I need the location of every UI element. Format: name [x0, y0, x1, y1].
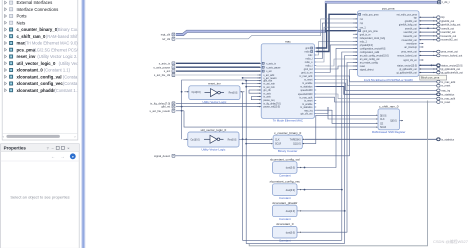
svg-text:Res[0:0]: Res[0:0] — [228, 140, 237, 142]
wire tx_ifg_delay — [176, 102, 260, 104]
wire reset fanout vertical B — [246, 80, 345, 243]
netlist panel background — [2, 0, 78, 140]
svg-text:resetdone: resetdone — [406, 43, 417, 46]
wires trunk mac to pcs_pma — [316, 41, 356, 55]
svg-text:gtrefclk_out: gtrefclk_out — [441, 20, 454, 23]
svg-text:Constant: Constant — [279, 217, 291, 221]
wire xlconstant_config_val net — [302, 48, 356, 167]
svg-text:status_vector[15:0]: status_vector[15:0] — [397, 64, 417, 67]
svg-text:tx_reset: tx_reset — [441, 101, 450, 104]
wire signal_detect to pcs_pma — [175, 70, 355, 156]
svg-text:rx_enable: rx_enable — [302, 82, 313, 85]
svg-text:gt_qplloutrefclk_out: gt_qplloutrefclk_out — [397, 72, 418, 75]
module c_shift_ram_0 (RAM-based Shift Register) — [378, 109, 400, 130]
svg-text:status_vector[15:0]: status_vector[15:0] — [441, 64, 462, 67]
svg-text:rx_axis: rx_axis — [263, 92, 271, 95]
svg-text:gmii_pcs_pma: gmii_pcs_pma — [363, 31, 379, 33]
svg-text:xlconstant_phaddr: xlconstant_phaddr — [17, 88, 56, 93]
svg-text:Constant: Constant — [279, 196, 291, 200]
svg-text:signal_detect: signal_detect — [360, 69, 374, 72]
svg-text:rx_axi_rstn: rx_axi_rstn — [263, 83, 275, 86]
svg-text:xlconstant_0: xlconstant_0 — [17, 68, 44, 73]
wire reset_inv fanout vertical A — [243, 92, 342, 241]
svg-text:rx_mac_aclk: rx_mac_aclk — [441, 81, 456, 84]
svg-text:gmii: gmii — [305, 48, 310, 50]
wire util_vector Res to counter CLK — [243, 138, 272, 140]
svg-text:pcs_pma: pcs_pma — [382, 7, 395, 11]
svg-text:rx_statistics: rx_statistics — [441, 93, 455, 96]
svg-text:THRESH0: THRESH0 — [290, 139, 302, 141]
wire trunk down to shift ram rows — [316, 107, 328, 114]
svg-text:gt_qplloutrefclk_out: gt_qplloutrefclk_out — [441, 71, 463, 74]
wire s_axi bus — [176, 70, 260, 72]
svg-text:s_axis_pause: s_axis_pause — [153, 65, 170, 69]
module xlconstant_config_val (Constant) — [273, 162, 298, 174]
svg-text:→: → — [60, 154, 64, 159]
svg-text:mdio_t: mdio_t — [305, 65, 312, 68]
svg-text:1G/2.5G Ethernet PCS/PMA or SG: 1G/2.5G Ethernet PCS/PMA or SGMII — [364, 78, 413, 82]
svg-text:sgmii_clk_en: sgmii_clk_en — [403, 60, 417, 62]
svg-text:reset_inv: reset_inv — [17, 54, 36, 59]
svg-text:D[0:0]: D[0:0] — [380, 115, 387, 117]
svg-text:userclk_out: userclk_out — [441, 27, 454, 30]
svg-text:ext_mdio_pcs_pma: ext_mdio_pcs_pma — [397, 13, 418, 16]
svg-text:CLK: CLK — [275, 139, 280, 141]
svg-text:tx_mac_aclk: tx_mac_aclk — [299, 96, 313, 99]
svg-text:speedis10100: speedis10100 — [298, 94, 313, 96]
svg-text:glbl_rstn: glbl_rstn — [263, 80, 273, 83]
panel splitter — [81, 0, 85, 248]
svg-text:gtrefclk_bufg_out: gtrefclk_bufg_out — [441, 24, 460, 27]
svg-text:xlconstant_config_vec: xlconstant_config_vec — [270, 180, 301, 184]
svg-text:Ports: Ports — [17, 14, 27, 19]
svg-text:s_axi_resetn: s_axi_resetn — [263, 77, 277, 80]
svg-text:rxuserclk2_out: rxuserclk2_out — [402, 39, 417, 42]
svg-text:mmcm_locked_out: mmcm_locked_out — [397, 55, 417, 58]
svg-text:SCLR: SCLR — [275, 144, 282, 146]
module xlconstant_0 (Constant) — [273, 226, 298, 238]
svg-text:Binary Counter: Binary Counter — [278, 149, 297, 153]
svg-text:Tri Mode Ethernet MAC: Tri Mode Ethernet MAC — [273, 119, 303, 123]
wire to counter SCLR — [246, 143, 271, 145]
wire rx_statistics to port — [316, 87, 436, 95]
svg-text:Utility Vector Logic: Utility Vector Logic — [202, 147, 226, 151]
module xlconstant_phaddr (Constant) — [273, 205, 298, 217]
svg-text:rxuserclk_out: rxuserclk_out — [403, 35, 417, 38]
svg-text:gtx_clk: gtx_clk — [263, 89, 271, 92]
wire s_axi_lite_resetn — [176, 110, 184, 112]
wire xlconstant_phaddr net — [302, 210, 345, 212]
svg-text:configuration_vector[4:0]: configuration_vector[4:0] — [360, 48, 386, 51]
wire counter THRESH0 to tx_statistics port (long) — [305, 138, 437, 140]
svg-text:an_interrupt: an_interrupt — [404, 46, 417, 49]
svg-text:CLK: CLK — [380, 119, 385, 121]
svg-text:phyaddr[4:0]: phyaddr[4:0] — [360, 44, 373, 47]
wire s_axi_lite_clk — [176, 74, 260, 76]
svg-text:rx_reset: rx_reset — [304, 79, 313, 82]
svg-text:pma_reset_out: pma_reset_out — [441, 51, 458, 54]
svg-text:rx_statistics: rx_statistics — [300, 86, 313, 89]
module reset_inv (Utility Vector Logic) — [189, 86, 240, 100]
svg-text:rxuserclk_out: rxuserclk_out — [441, 35, 456, 38]
output port t_clk_t — [438, 1, 441, 4]
svg-text:xlconstant_0: xlconstant_0 — [276, 222, 294, 226]
wire counter Q to shift ram D — [305, 115, 377, 143]
module mac (Tri Mode Ethernet MAC) — [261, 44, 314, 119]
svg-text:reset_inv: reset_inv — [208, 82, 221, 86]
wire s_axis_pause bus — [176, 66, 260, 68]
wire mdio interface (thick) — [316, 14, 356, 51]
svg-text:Q[11:0]: Q[11:0] — [293, 144, 301, 146]
wire mgt_clk vertical (navy) — [325, 2, 327, 32]
netlist tree rows — [5, 0, 97, 93]
svg-text:CE: CE — [380, 123, 384, 125]
wires pcs_pma outputs to ports — [419, 16, 437, 18]
module c_counter_binary_0 (Binary Counter) — [273, 135, 302, 149]
wire tx_reset to port — [316, 97, 436, 102]
svg-text:Select an object to see proper: Select an object to see properties — [10, 195, 69, 200]
svg-text:mgt_clk: mgt_clk — [161, 33, 171, 37]
svg-text:gmii_txd: gmii_txd — [304, 68, 313, 71]
svg-text:s_axi_lite_resetn: s_axi_lite_resetn — [150, 109, 171, 113]
svg-text:Interface Connections: Interface Connections — [17, 7, 59, 12]
svg-text:mdio_pcs_pma: mdio_pcs_pma — [363, 14, 379, 16]
svg-text:reset: reset — [360, 65, 366, 68]
svg-text:CSDN @编程W527: CSDN @编程W527 — [433, 238, 469, 244]
svg-text:s_axis_pause: s_axis_pause — [266, 67, 281, 69]
svg-text:(Tri Mode Ethernet MAC 9.0): (Tri Mode Ethernet MAC 9.0) — [25, 41, 79, 46]
tooltip Block pcs_pma — [420, 75, 447, 80]
svg-text:Properties: Properties — [4, 146, 27, 151]
svg-text:rx_reset: rx_reset — [441, 85, 450, 88]
wire glbl_rst — [176, 106, 260, 108]
output ports right column — [437, 16, 440, 19]
svg-text:dout[0:0]: dout[0:0] — [286, 231, 295, 234]
svg-text:gmii_tx_er: gmii_tx_er — [360, 33, 371, 36]
svg-text:userclk_out: userclk_out — [405, 27, 417, 30]
wire rx_reset to port — [316, 80, 436, 86]
netlist horizontal scrollbar — [2, 132, 78, 134]
svg-text:tx_reset: tx_reset — [304, 100, 313, 103]
svg-text:signal_detect: signal_detect — [154, 154, 170, 158]
svg-text:mdio: mdio — [305, 52, 311, 54]
svg-text:s_axis_tx: s_axis_tx — [159, 61, 171, 65]
wire gmii interface (thick) — [316, 31, 356, 48]
svg-text:SCLR: SCLR — [380, 127, 387, 129]
svg-text:tx_statistics: tx_statistics — [300, 106, 313, 109]
svg-text:util_vector_logic_0: util_vector_logic_0 — [17, 61, 57, 66]
wire rx_mac_aclk to port — [316, 76, 436, 82]
svg-text:ref_clk: ref_clk — [162, 37, 171, 41]
wire mgt_clk top run to port t_clk_t (lavender) — [325, 1, 438, 4]
module xlconstant_config_vec (Constant) — [273, 184, 298, 196]
svg-text:dout[0:0]: dout[0:0] — [286, 167, 295, 170]
svg-text:mac_irq: mac_irq — [304, 109, 313, 112]
wire highlighted net (gray) — [249, 101, 427, 246]
svg-text:pma_reset_out: pma_reset_out — [401, 51, 417, 54]
svg-text:pause_val[15:0]: pause_val[15:0] — [263, 107, 280, 109]
svg-text:xlconstant_config_vec: xlconstant_config_vec — [17, 81, 64, 86]
svg-text:s_axi: s_axi — [164, 69, 171, 73]
svg-text:configuration_valid: configuration_valid — [360, 51, 380, 54]
svg-text:an_adv_config_vector[15:0]: an_adv_config_vector[15:0] — [360, 55, 389, 58]
wire trunk to shift ram CE — [332, 110, 376, 123]
wire s_axi_lite_resetn to shift ram SCLR — [184, 111, 376, 127]
svg-text:tx_axi_rstn: tx_axi_rstn — [263, 86, 275, 89]
svg-text:rxuserclk2_out: rxuserclk2_out — [441, 39, 458, 42]
svg-text:glbl_rst: glbl_rst — [161, 105, 170, 109]
svg-text:(Utility Vector Logic 2.0): (Utility Vector Logic 2.0) — [37, 54, 81, 59]
svg-text:dout[4:0]: dout[4:0] — [286, 210, 295, 213]
svg-text:gtrefclk_out: gtrefclk_out — [405, 20, 417, 23]
svg-text:?: ? — [47, 147, 49, 151]
svg-text:▾: ▾ — [72, 155, 74, 159]
svg-text:mdio_i: mdio_i — [306, 59, 313, 61]
svg-text:xlconstant_phaddr: xlconstant_phaddr — [272, 201, 297, 205]
svg-text:c_counter_binary_0: c_counter_binary_0 — [274, 131, 301, 135]
svg-text:External Interfaces: External Interfaces — [17, 0, 53, 5]
wire fanout stubs into mac resets — [243, 77, 260, 79]
svg-text:tx_axis: tx_axis — [263, 96, 271, 99]
svg-text:an_adv_config_val: an_adv_config_val — [360, 59, 380, 61]
svg-text:rx_mac_aclk: rx_mac_aclk — [299, 75, 313, 78]
wire ref_clk — [176, 19, 356, 39]
svg-text:an_restart_config: an_restart_config — [360, 62, 379, 65]
svg-text:s_axi_lite_clk: s_axi_lite_clk — [154, 73, 171, 77]
wire trunk to shift ram CLK — [328, 107, 376, 119]
svg-text:gt_qplloutclk_out: gt_qplloutclk_out — [399, 68, 417, 71]
svg-text:userclk2_out: userclk2_out — [404, 31, 418, 34]
svg-text:pause_req: pause_req — [263, 99, 275, 102]
svg-text:Res[0:0]: Res[0:0] — [229, 93, 238, 95]
properties panel — [1, 144, 80, 248]
module pcs_pma (1G/2.5G Ethernet PCS/PMA or SGMII) — [358, 11, 420, 77]
svg-text:mac_irq: mac_irq — [441, 89, 451, 92]
wire xlconstant_config_vec net — [302, 189, 342, 191]
svg-text:c_counter_binary_0: c_counter_binary_0 — [17, 27, 58, 32]
svg-text:rxn_1: rxn_1 — [360, 26, 367, 29]
wire xlconstant_0 net — [302, 63, 356, 233]
svg-text:mdc_1: mdc_1 — [360, 42, 368, 44]
svg-text:speedis100: speedis100 — [300, 90, 313, 92]
wire mac_irq to port — [316, 83, 436, 90]
svg-text:Op1[0:0]: Op1[0:0] — [191, 140, 200, 142]
svg-text:Constant: Constant — [279, 174, 291, 178]
svg-text:gtrefclk_bufg_out: gtrefclk_bufg_out — [399, 24, 417, 27]
wire s_axis_tx bus — [176, 62, 260, 64]
svg-text:Q[0:0]: Q[0:0] — [390, 121, 397, 123]
svg-text:util_vector_logic_0: util_vector_logic_0 — [201, 128, 227, 132]
svg-text:xlconstant_config_val: xlconstant_config_val — [17, 74, 62, 79]
svg-text:gtx_clk_out: gtx_clk_out — [301, 113, 313, 116]
svg-text:gmii_tx_en: gmii_tx_en — [301, 72, 313, 75]
svg-text:tx_enable: tx_enable — [302, 103, 313, 106]
svg-text:Nets: Nets — [17, 20, 26, 25]
svg-text:mmcm_locked_out: mmcm_locked_out — [441, 54, 462, 57]
svg-text:–: – — [52, 147, 54, 151]
svg-text:userclk2_out: userclk2_out — [441, 31, 455, 34]
svg-text:tx_statistics: tx_statistics — [441, 138, 455, 141]
svg-text:tx_ifg_delay[7:0]: tx_ifg_delay[7:0] — [263, 103, 280, 106]
svg-text:mdio_o: mdio_o — [305, 62, 313, 64]
wire mgt_clk bus (lavender) — [176, 31, 327, 34]
wire glbl_rst riser / loop — [182, 80, 247, 139]
svg-text:←: ← — [51, 154, 55, 159]
svg-text:s_axi: s_axi — [266, 71, 272, 73]
svg-text:c_shift_ram_0: c_shift_ram_0 — [379, 105, 399, 109]
svg-text:s_axi_aclk: s_axi_aclk — [263, 75, 275, 77]
svg-text:c_shift_ram_0: c_shift_ram_0 — [17, 34, 47, 39]
svg-text:xlconstant_config_val: xlconstant_config_val — [270, 158, 300, 162]
wire tx_mac_aclk to port — [316, 94, 436, 99]
svg-text:Block pcs_pma: Block pcs_pma — [421, 76, 440, 80]
svg-text:s_axis_tx: s_axis_tx — [266, 62, 277, 65]
module util_vector_logic_0 (Utility Vector Logic) — [188, 132, 239, 147]
svg-text:RAM-based Shift Register: RAM-based Shift Register — [372, 130, 405, 134]
svg-text:Op1[0:0]: Op1[0:0] — [192, 92, 201, 94]
svg-text:(Constant 1.1): (Constant 1.1) — [44, 68, 71, 73]
svg-text:dout[0:0]: dout[0:0] — [286, 189, 295, 192]
svg-text:mac: mac — [285, 40, 291, 44]
svg-text:independent_clock_bufg: independent_clock_bufg — [360, 37, 386, 40]
svg-text:(Constant 1.1): (Constant 1.1) — [54, 88, 81, 93]
svg-text:t_clk_t: t_clk_t — [442, 1, 450, 4]
